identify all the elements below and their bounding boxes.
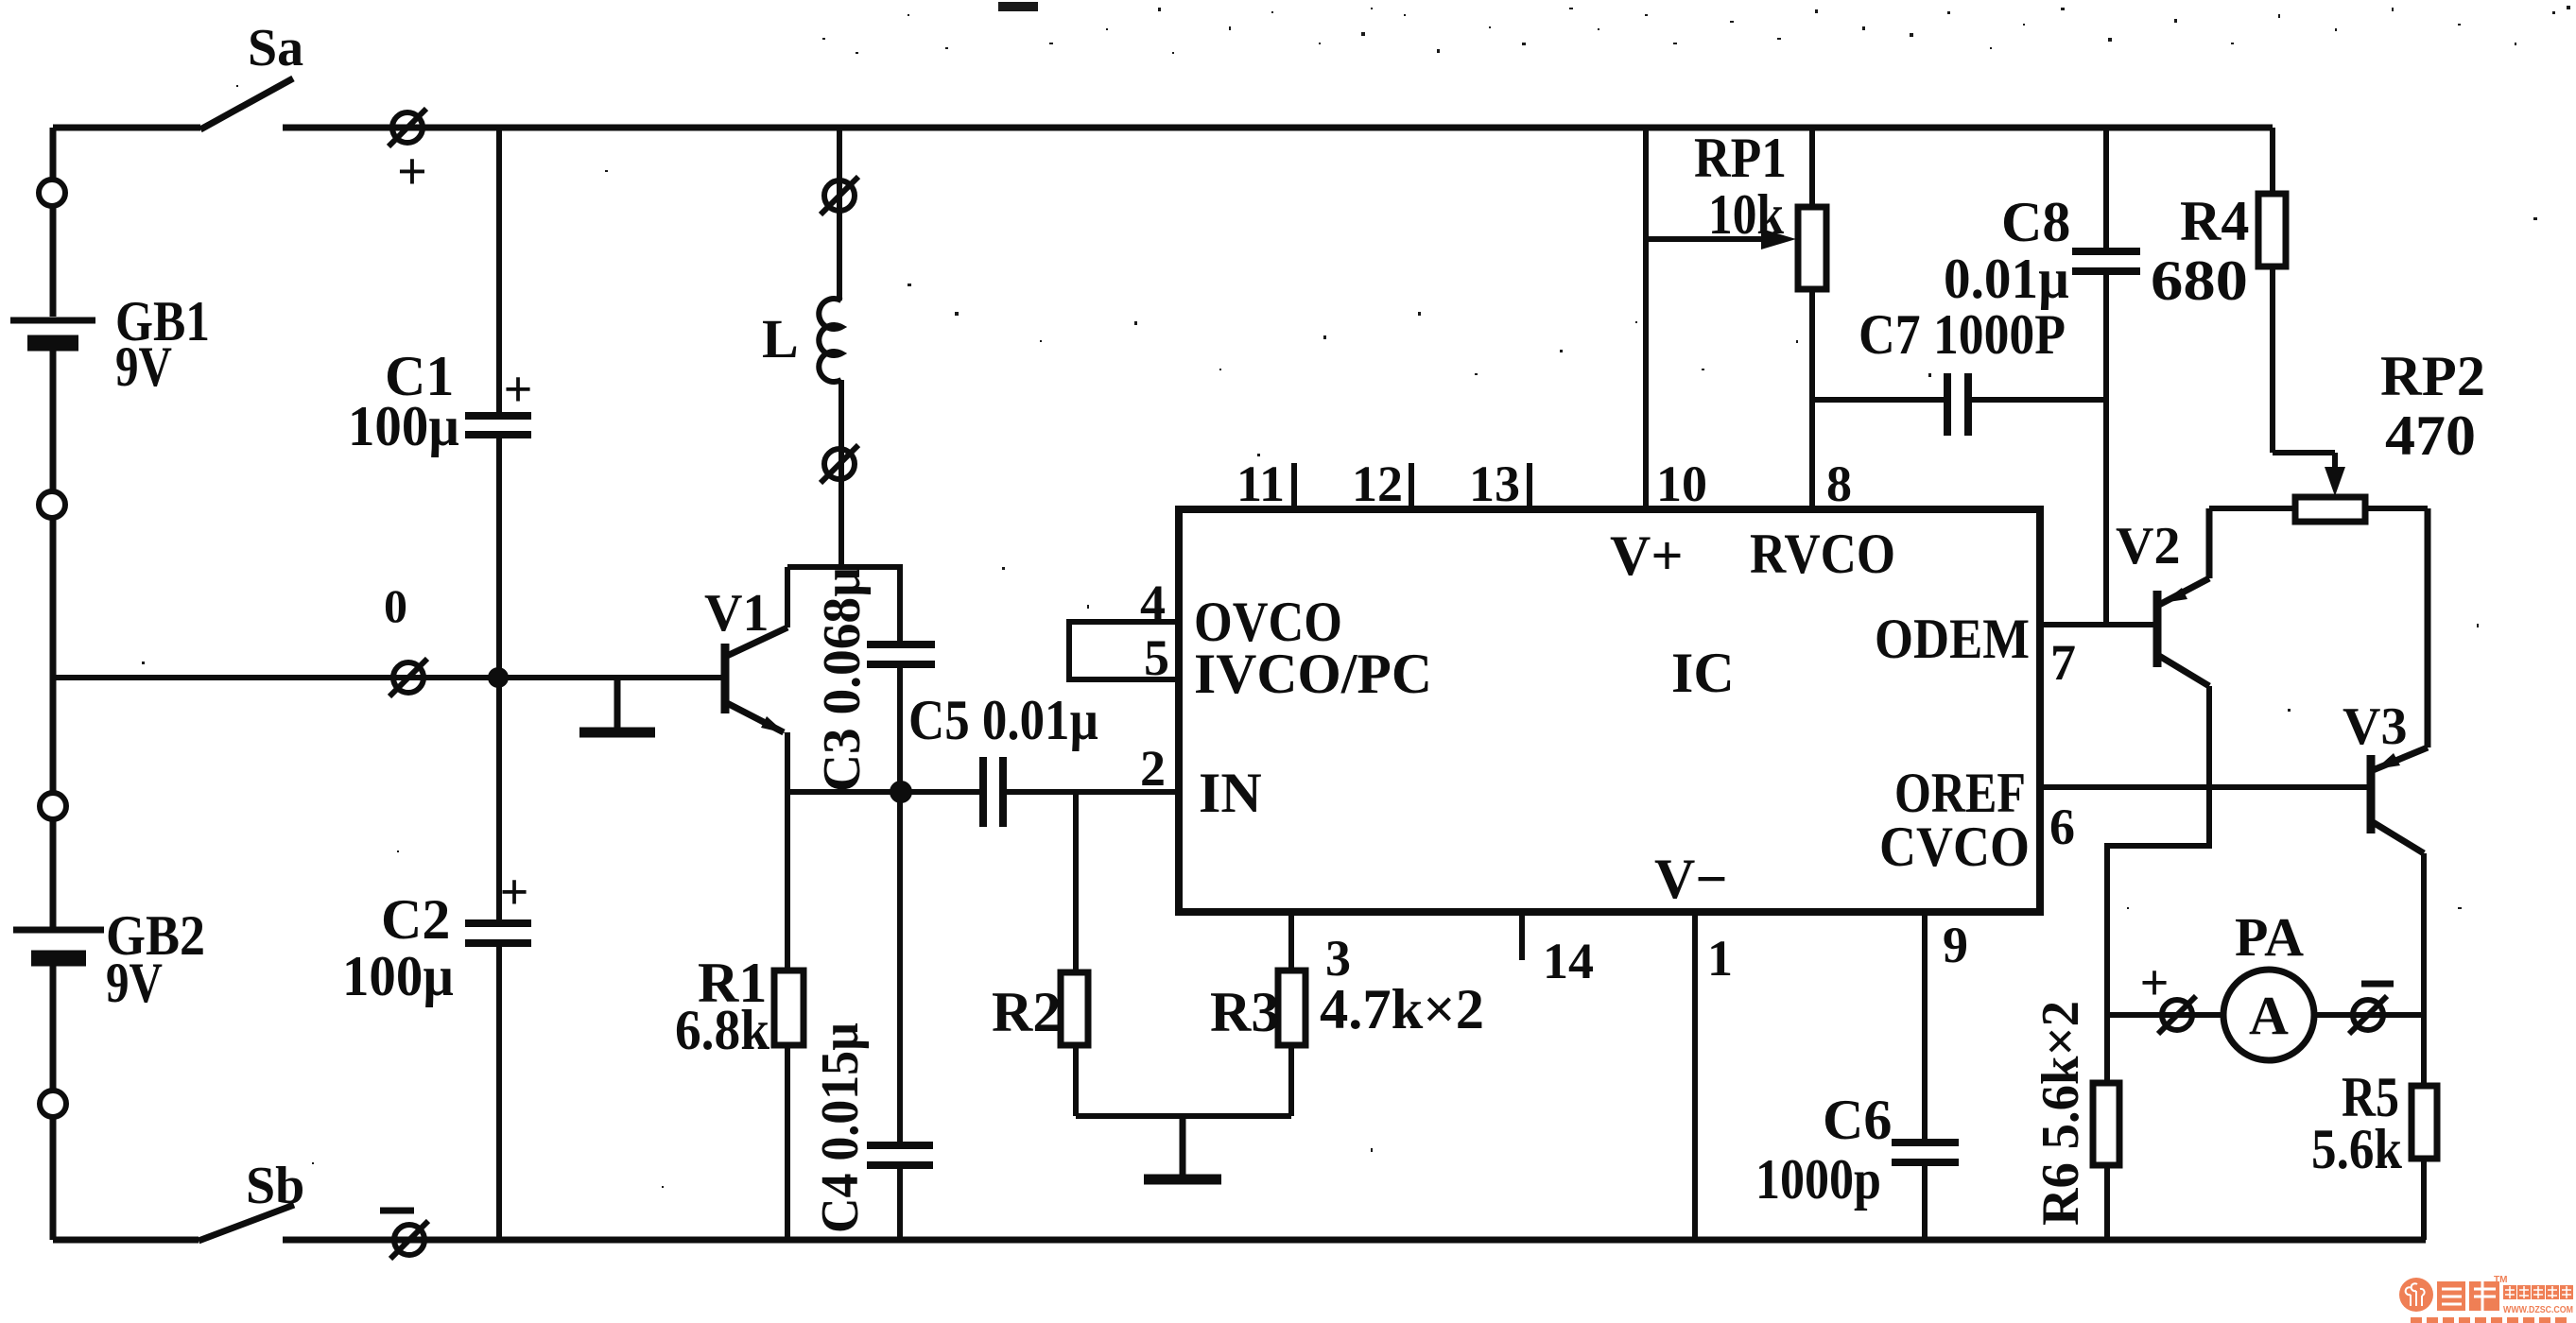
svg-text:6: 6	[2049, 799, 2075, 855]
wire pin 8 to rail	[1812, 128, 1852, 512]
svg-text:14: 14	[1543, 933, 1594, 989]
wire pin 6 OREF	[2040, 787, 2368, 855]
pin 11 stub	[1236, 455, 1294, 512]
svg-text:10: 10	[1656, 455, 1707, 512]
wire pin 9 down	[1925, 912, 1968, 1143]
label C4 vertical	[811, 1022, 870, 1233]
svg-text:IVCO/PC: IVCO/PC	[1194, 643, 1432, 705]
terminal PA plus	[2158, 996, 2196, 1034]
node C1-C2 midpoint	[488, 667, 509, 688]
IC body	[1179, 509, 2040, 912]
svg-text:100µ: 100µ	[348, 395, 459, 457]
pin 3 label	[1325, 930, 1351, 987]
ground bar on zero rail	[579, 678, 655, 732]
svg-text:C3 0.068µ: C3 0.068µ	[813, 567, 872, 792]
terminal PA minus	[2349, 996, 2387, 1034]
svg-text:0: 0	[384, 579, 407, 632]
pin 14 stub	[1522, 912, 1594, 989]
svg-text:V2: V2	[2116, 517, 2180, 576]
svg-text:CVCO: CVCO	[1879, 816, 2030, 878]
svg-text:C5 0.01µ: C5 0.01µ	[908, 689, 1098, 751]
svg-text:A: A	[2249, 985, 2289, 1046]
watermark logo	[2399, 1275, 2573, 1323]
wire top supply rail	[53, 125, 2273, 131]
svg-text:ODEM: ODEM	[1875, 608, 2030, 670]
svg-text:9V: 9V	[115, 335, 172, 398]
svg-text:11: 11	[1236, 455, 1285, 512]
svg-text:V3: V3	[2343, 697, 2407, 756]
terminal on L top	[821, 177, 858, 215]
svg-text:680: 680	[2151, 249, 2248, 312]
pin 12 stub	[1352, 455, 1411, 512]
svg-text:8: 8	[1826, 455, 1852, 512]
wire pin 10 to rail	[1646, 128, 1707, 512]
resistor R3	[1210, 912, 1484, 1116]
svg-text:3: 3	[1325, 930, 1351, 987]
label C3 vertical	[813, 567, 872, 792]
wire V3 collector down	[2421, 853, 2427, 1015]
svg-text:L: L	[762, 308, 799, 369]
wire V2 collector path	[2107, 686, 2209, 1015]
svg-text:10k: 10k	[1708, 183, 1785, 246]
svg-text:4: 4	[1140, 575, 1166, 631]
svg-text:C7 1000P: C7 1000P	[1859, 303, 2066, 366]
battery GB2	[13, 793, 205, 1117]
capacitor C6	[1755, 1089, 1959, 1240]
svg-text:R6 5.6k×2: R6 5.6k×2	[2031, 1001, 2090, 1226]
svg-text:+: +	[397, 143, 427, 201]
svg-text:R3: R3	[1210, 981, 1279, 1043]
capacitor C2	[342, 678, 531, 1240]
capacitor C8	[1944, 128, 2140, 625]
inductor L	[762, 128, 841, 567]
pin 13 stub	[1469, 455, 1530, 512]
wire V1 emitter down	[785, 732, 790, 792]
svg-text:1: 1	[1707, 930, 1733, 987]
terminal 0	[389, 659, 427, 696]
wire V1 collector top	[787, 567, 903, 627]
svg-text:WWW.DZSC.COM: WWW.DZSC.COM	[2503, 1305, 2573, 1315]
wire zero rail	[53, 579, 723, 678]
resistor R4	[2151, 128, 2335, 453]
svg-text:C8: C8	[2001, 191, 2070, 253]
resistor R6	[2093, 1015, 2119, 1240]
label Sb	[246, 1157, 304, 1215]
svg-text:9: 9	[1943, 917, 1968, 973]
capacitor C4	[867, 792, 933, 1240]
svg-text:C6: C6	[1823, 1089, 1892, 1151]
switch Sa	[200, 78, 293, 129]
loop pin4 to pin5	[1069, 575, 1179, 686]
label Sa	[248, 19, 303, 77]
wire emitter node	[787, 789, 983, 795]
ground below R2 R3	[1144, 1116, 1221, 1179]
capacitor C5	[908, 689, 1179, 827]
resistor R2	[992, 792, 1088, 1116]
wire pin 1 to bottom rail	[1695, 912, 1733, 1240]
terminal - bottom	[380, 1211, 428, 1259]
transistor V1	[704, 584, 787, 733]
svg-text:9V: 9V	[106, 952, 163, 1014]
svg-text:100µ: 100µ	[342, 945, 454, 1007]
wire left battery column	[50, 128, 57, 1240]
svg-text:RP1: RP1	[1694, 127, 1787, 189]
node C3-C5	[890, 781, 912, 803]
svg-text:V−: V−	[1654, 848, 1728, 910]
label R6 vertical	[2031, 1001, 2090, 1226]
svg-text:V1: V1	[704, 584, 769, 643]
capacitor C7	[1812, 303, 2106, 436]
wire R2-R3 join	[1076, 1113, 1291, 1119]
svg-text:IC: IC	[1671, 642, 1735, 704]
svg-text:4.7k×2: 4.7k×2	[1320, 978, 1484, 1040]
svg-text:1000p: 1000p	[1755, 1148, 1881, 1211]
capacitor C1	[348, 128, 532, 678]
switch Sb	[199, 1205, 294, 1241]
svg-text:RVCO: RVCO	[1750, 523, 1895, 585]
svg-text:C2: C2	[381, 888, 450, 951]
terminal on L bottom	[821, 445, 858, 483]
transistor V2	[2116, 508, 2209, 686]
svg-text:TM: TM	[2494, 1275, 2507, 1285]
svg-text:5: 5	[1144, 629, 1169, 686]
svg-text:7: 7	[2050, 634, 2076, 691]
svg-text:IN: IN	[1199, 762, 1262, 824]
svg-text:C4 0.015µ: C4 0.015µ	[811, 1022, 870, 1233]
svg-text:5.6k: 5.6k	[2311, 1118, 2403, 1180]
svg-text:V+: V+	[1610, 524, 1684, 587]
resistor R5	[2311, 1015, 2437, 1240]
battery GB1	[10, 180, 210, 518]
svg-text:12: 12	[1352, 455, 1403, 512]
terminal + top	[389, 109, 427, 201]
svg-text:Sa: Sa	[248, 19, 303, 77]
ammeter PA	[2107, 906, 2424, 1060]
svg-text:R2: R2	[992, 981, 1061, 1043]
svg-text:Sb: Sb	[246, 1157, 304, 1215]
resistor R1	[675, 792, 804, 1240]
pin 2 label	[1140, 740, 1166, 797]
potentiometer RP2	[2209, 345, 2485, 522]
svg-text:+: +	[500, 864, 529, 920]
capacitor C3	[867, 567, 935, 792]
transistor V3	[2343, 508, 2428, 853]
potentiometer RP1	[1646, 127, 1826, 289]
svg-text:+: +	[504, 361, 533, 418]
svg-text:PA: PA	[2235, 906, 2304, 968]
svg-text:470: 470	[2385, 404, 2476, 467]
svg-text:13: 13	[1469, 455, 1520, 512]
svg-text:RP2: RP2	[2380, 345, 2485, 407]
wire pin 7 ODEM	[2040, 625, 2153, 691]
svg-text:0.01µ: 0.01µ	[1944, 248, 2069, 310]
wire bottom rail	[53, 1237, 2426, 1244]
svg-text:2: 2	[1140, 740, 1166, 797]
svg-text:6.8k: 6.8k	[675, 999, 770, 1061]
svg-text:R4: R4	[2180, 190, 2249, 252]
